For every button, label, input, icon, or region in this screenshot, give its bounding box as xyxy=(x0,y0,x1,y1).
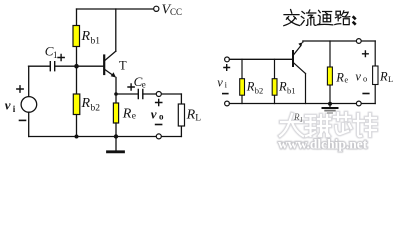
emitter arrowhead right xyxy=(298,42,302,47)
node: base junction dot xyxy=(74,64,79,69)
title 交流通路: xyxy=(284,10,355,26)
svg-text:i: i xyxy=(225,79,228,89)
svg-text:b1: b1 xyxy=(91,37,101,47)
svg-text:www.dlchip.net: www.dlchip.net xyxy=(278,137,368,152)
wire: collector down right xyxy=(305,74,307,104)
svg-text:R: R xyxy=(81,96,91,111)
svg-text:v: v xyxy=(355,69,361,83)
terminal vo- open circle xyxy=(156,134,161,139)
svg-text:R: R xyxy=(81,29,91,44)
svg-text:v: v xyxy=(151,106,157,121)
node dot Rb2 bottom xyxy=(75,135,79,139)
wire: emitter to Ce xyxy=(116,93,138,95)
source vi circle xyxy=(21,97,37,113)
emitter arrowhead xyxy=(111,72,116,77)
resistor Re xyxy=(113,103,118,123)
transistor T xyxy=(103,56,105,75)
watermark logo 大联芯城 xyxy=(280,113,376,136)
ground xyxy=(115,137,117,151)
resistor Rb2 xyxy=(76,66,78,136)
plus sign vo xyxy=(156,99,162,105)
svg-text:o: o xyxy=(363,73,367,83)
wire: base top right xyxy=(230,58,293,60)
resistor Rb1 right xyxy=(274,59,276,103)
svg-text:e: e xyxy=(142,80,146,90)
plus sign vo right xyxy=(363,51,369,57)
terminal input top xyxy=(225,57,230,62)
minus sign vo right xyxy=(363,93,369,95)
svg-text:R: R xyxy=(278,80,287,94)
transistor right xyxy=(292,51,294,66)
terminal vo- right xyxy=(356,101,361,106)
svg-text:b1: b1 xyxy=(287,85,296,95)
svg-text:R: R xyxy=(122,107,132,122)
svg-text:o: o xyxy=(159,111,164,121)
wire: input (base) with C1 gap xyxy=(29,65,104,67)
svg-text:CC: CC xyxy=(170,7,182,17)
svg-text:R: R xyxy=(379,69,388,83)
svg-text:T: T xyxy=(119,59,127,73)
svg-text:b2: b2 xyxy=(255,85,263,95)
resistor Re right xyxy=(329,41,331,104)
terminal input bottom xyxy=(225,101,230,106)
terminal vo+ right xyxy=(356,39,361,44)
node dot emitter bottom xyxy=(114,134,118,138)
svg-text:L: L xyxy=(388,74,393,84)
wire: emitter top rail right xyxy=(303,40,375,42)
svg-text:v: v xyxy=(5,98,11,113)
wire: left vertical to source xyxy=(28,66,30,136)
svg-text:R: R xyxy=(335,71,344,85)
wire: bottom rail xyxy=(29,136,182,138)
wire: top rail xyxy=(77,8,154,10)
svg-text:R: R xyxy=(246,80,255,94)
plus sign C1 xyxy=(58,54,64,60)
svg-text:R: R xyxy=(186,108,196,123)
wire: bottom rail right xyxy=(230,103,376,105)
plus sign vi xyxy=(17,86,23,92)
svg-text:v: v xyxy=(217,75,223,89)
ground right xyxy=(329,104,331,108)
node dot emitter/Ce junction xyxy=(114,92,118,96)
capacitor Ce xyxy=(138,89,143,98)
capacitor C1 xyxy=(50,62,54,71)
terminal vo+ open circle xyxy=(156,92,161,97)
minus sign vo xyxy=(156,124,162,126)
terminal VCC xyxy=(154,6,159,11)
svg-text:1: 1 xyxy=(53,50,58,60)
plus sign Ce xyxy=(128,84,134,90)
minus sign vi right xyxy=(223,93,228,95)
resistor RL xyxy=(180,94,182,137)
plus sign vi right xyxy=(224,65,230,71)
svg-text:L: L xyxy=(195,114,201,124)
svg-text:e: e xyxy=(132,112,136,122)
svg-text:b2: b2 xyxy=(91,104,101,114)
svg-text:i: i xyxy=(13,104,16,114)
resistor Rb1 xyxy=(76,9,78,66)
wire: Ce to RL top xyxy=(143,93,181,95)
resistor RL right xyxy=(374,41,376,104)
resistor Rb2 right xyxy=(241,59,243,103)
svg-text:e: e xyxy=(344,75,348,85)
node dot ground junction xyxy=(328,102,332,106)
minus sign vi xyxy=(20,119,26,121)
